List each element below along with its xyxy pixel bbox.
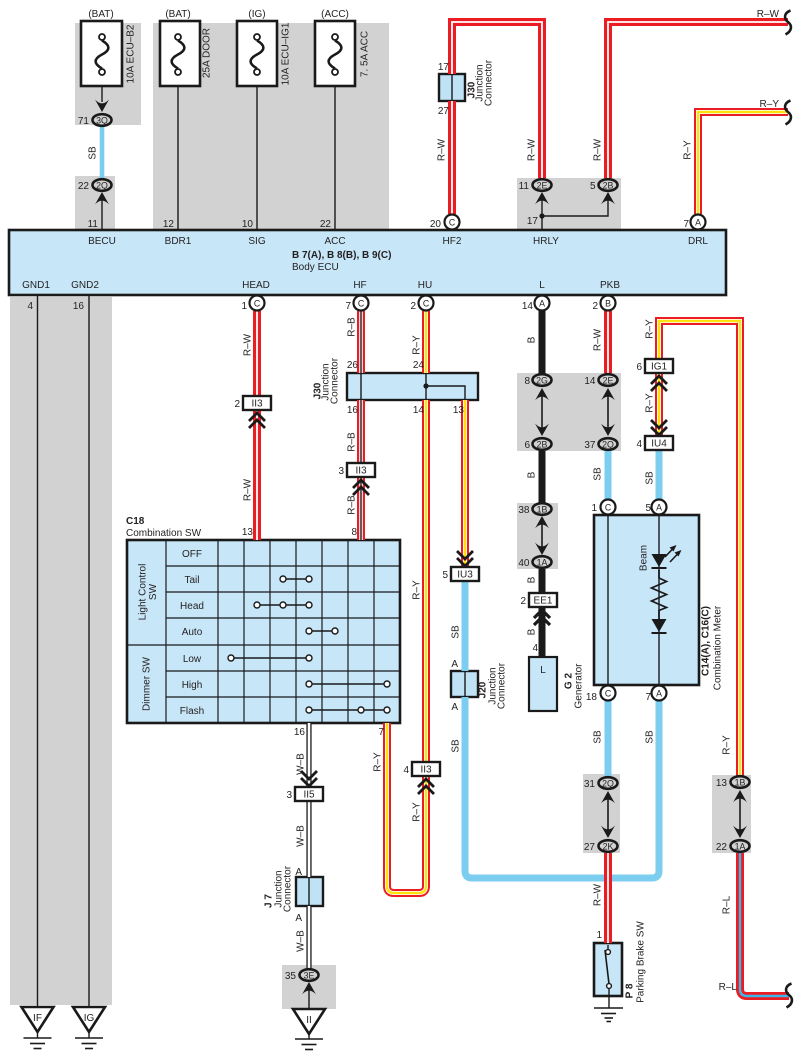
wire R-Y HU through J30 pin24/14 to II3 pin4 and U-turn to SW pin 7 (387, 311, 426, 893)
svg-text:R–B: R–B (347, 432, 358, 452)
svg-text:17: 17 (438, 62, 450, 73)
svg-text:C: C (605, 503, 612, 513)
svg-text:6: 6 (524, 440, 530, 451)
svg-text:Tail: Tail (184, 575, 199, 586)
solid arrow into 2Q (95, 192, 109, 205)
wire R-Y J30 pin13 to IU3 (461, 400, 469, 567)
svg-text:BECU: BECU (88, 236, 116, 247)
svg-text:B: B (527, 576, 538, 583)
svg-text:R–W: R–W (593, 883, 604, 906)
svg-text:R–B: R–B (347, 495, 358, 515)
connector box II5 pin3 (295, 787, 323, 801)
svg-text:10A ECU–B2: 10A ECU–B2 (126, 24, 137, 83)
pin circle C HEAD (250, 296, 265, 311)
svg-text:1B: 1B (735, 778, 746, 788)
svg-text:HF: HF (353, 280, 366, 291)
switch contacts Flash row (306, 707, 390, 713)
svg-text:7. 5A ACC: 7. 5A ACC (360, 31, 371, 77)
thin wire fuse1 to arrow 3Q (101, 76, 103, 102)
gray background strip GND1/GND2 (10, 297, 112, 1005)
thin wire through J30 middle pin24-14 with branch to pin13 (426, 374, 465, 399)
svg-text:SB: SB (593, 467, 604, 481)
ground symbol IG (75, 1032, 103, 1049)
svg-text:A: A (451, 702, 458, 713)
svg-text:Beam: Beam (639, 545, 650, 571)
svg-text:R–Y: R–Y (683, 140, 694, 160)
svg-text:B 7(A), B 8(B), B 9(C): B 7(A), B 8(B), B 9(C) (292, 250, 391, 261)
svg-text:7: 7 (378, 727, 384, 738)
pin circle B PKB (601, 296, 616, 311)
meter labels (639, 545, 724, 690)
svg-text:Connector: Connector (330, 357, 341, 404)
double arrow between 2G and 2B (535, 388, 549, 436)
fuse 10A ECU-B2 (81, 21, 122, 86)
oval connector 27 2K (599, 840, 618, 852)
junction connector J30 middle box (347, 373, 478, 400)
wire B 2B to 1B (539, 451, 546, 503)
svg-text:(IG): (IG) (248, 9, 265, 20)
junction connector J7 box (296, 877, 323, 906)
svg-text:R–B: R–B (347, 317, 358, 337)
Generator G2 box (529, 657, 557, 711)
wire R-W 2K to parking brake SW pin 1 (604, 853, 612, 943)
svg-text:IG1: IG1 (651, 362, 668, 373)
wire B EE1 to generator pin 4 (539, 607, 546, 657)
svg-text:12: 12 (163, 219, 175, 230)
svg-text:R–W: R–W (527, 138, 538, 161)
svg-text:W–B: W–B (296, 825, 307, 847)
svg-text:27: 27 (438, 106, 450, 117)
svg-text:2K: 2K (603, 842, 614, 852)
wire R-Y IG1 chain horizontal and down to 1B (659, 321, 740, 776)
svg-text:1A: 1A (735, 842, 746, 852)
svg-text:R–W: R–W (243, 333, 254, 356)
wire break curl R-W top right (785, 11, 791, 35)
svg-text:II3: II3 (251, 399, 263, 410)
svg-text:L: L (539, 280, 545, 291)
svg-text:16: 16 (73, 301, 85, 312)
chevron into II3 pin4 (418, 779, 434, 794)
oval connector 5 2B (599, 179, 618, 191)
svg-text:6: 6 (636, 362, 642, 373)
wire labels HEAD/HF/HU chains (243, 317, 423, 822)
svg-text:R–W: R–W (757, 9, 780, 20)
svg-text:SB: SB (88, 146, 99, 160)
svg-text:C: C (449, 218, 456, 228)
connector box II3 pin3 (347, 463, 375, 477)
LED 2 (diode) in meter (652, 619, 667, 633)
chevron into II5 (301, 771, 317, 786)
svg-text:7: 7 (345, 301, 351, 312)
wire R-Y IG1 to IU4 (655, 373, 663, 436)
oval connector 22 2Q (93, 179, 112, 191)
C18 combination SW labels (126, 516, 204, 717)
svg-text:8: 8 (351, 527, 357, 538)
svg-text:R–W: R–W (593, 138, 604, 161)
switch contacts High row (306, 681, 390, 687)
pin circle C HF (354, 296, 369, 311)
oval connector 37 2Q lower (599, 438, 618, 450)
svg-text:14: 14 (413, 405, 425, 416)
oval connector 71 3Q (93, 114, 112, 126)
svg-text:Generator: Generator (574, 663, 585, 709)
svg-text:(BAT): (BAT) (88, 9, 113, 20)
solid arrow into 2E (535, 192, 549, 205)
chevron into II3 pin3 (353, 480, 369, 495)
ground below parking brake SW (594, 996, 623, 1022)
svg-text:4: 4 (403, 765, 409, 776)
pin circle C meter 1 (601, 500, 616, 515)
oval connector 14 2E lower (599, 374, 618, 386)
svg-text:Head: Head (180, 601, 204, 612)
generator labels (540, 663, 584, 709)
wire R-W 2B to right edge (608, 22, 788, 178)
svg-text:W–B: W–B (296, 930, 307, 952)
svg-text:5: 5 (442, 570, 448, 581)
J30 middle labels (313, 357, 341, 404)
oval connector 8 2G (533, 374, 552, 386)
svg-text:R–W: R–W (593, 328, 604, 351)
svg-text:HU: HU (418, 280, 432, 291)
oval connector 31 2Q lower2 (599, 777, 618, 789)
gray background patch 2G/2B/2E/2Q (517, 373, 621, 451)
svg-text:5: 5 (590, 181, 596, 192)
svg-text:R–W: R–W (437, 138, 448, 161)
thin wire through J30 middle pin26-16 (360, 374, 362, 399)
svg-text:37: 37 (584, 440, 596, 451)
svg-text:R–Y: R–Y (412, 802, 423, 822)
svg-text:1: 1 (591, 503, 597, 514)
LED Beam indicator (652, 545, 682, 568)
svg-text:2Q: 2Q (602, 779, 614, 789)
gray background patch 3E ground (282, 965, 336, 1009)
svg-text:2: 2 (234, 399, 240, 410)
gray background patch 1B/1A (517, 503, 558, 569)
svg-text:3E: 3E (304, 971, 315, 981)
svg-text:GND2: GND2 (71, 280, 99, 291)
junction dot node HRLY (539, 213, 544, 218)
svg-text:IG: IG (84, 1013, 95, 1024)
svg-text:SB: SB (645, 730, 656, 744)
solid arrow into 2B (601, 192, 615, 205)
pin circle A DRL (691, 215, 706, 230)
svg-text:Combination SW: Combination SW (126, 528, 202, 539)
wire R-W HF2 to J30 top (452, 22, 542, 214)
svg-text:R–Y: R–Y (645, 319, 656, 339)
svg-text:C: C (605, 689, 612, 699)
svg-text:2: 2 (410, 301, 416, 312)
svg-text:7: 7 (683, 219, 689, 230)
double arrow between 2E and 2Q (601, 388, 615, 436)
thin wire 3E arrow to triangle II (308, 988, 310, 1009)
svg-text:8: 8 (524, 376, 530, 387)
ground symbol II (295, 1034, 323, 1050)
junction connector J30 top box (439, 74, 465, 101)
svg-text:Combination Meter: Combination Meter (713, 605, 724, 690)
svg-text:71: 71 (78, 116, 90, 127)
svg-text:Connector: Connector (283, 865, 294, 912)
gray background strip fuse ECU-B2 (75, 23, 141, 125)
thin wire through J20 (464, 672, 466, 696)
svg-text:Low: Low (183, 654, 202, 665)
ground triangle IG (73, 1007, 105, 1032)
thin wire through J30 top (451, 75, 453, 100)
letters in oval connectors (96, 116, 745, 981)
svg-text:22: 22 (78, 181, 90, 192)
double arrow between 2Q and 2K (601, 791, 615, 838)
solid arrow into 3Q (95, 100, 109, 113)
svg-text:1: 1 (596, 930, 602, 941)
wire B L-pin to 2G (539, 311, 546, 374)
connector box II3 pin2 (243, 396, 271, 410)
svg-text:C: C (254, 299, 261, 309)
gray background block fuses DOOR/IG/ACC (153, 23, 389, 230)
wire SB 2Q37 to meter pin 1 (605, 451, 612, 500)
svg-text:B: B (527, 336, 538, 343)
svg-text:A: A (451, 659, 458, 670)
svg-text:DRL: DRL (688, 236, 708, 247)
svg-text:R–L: R–L (722, 895, 733, 914)
svg-text:IF: IF (33, 1013, 42, 1024)
svg-text:2: 2 (592, 301, 598, 312)
svg-text:IU3: IU3 (457, 570, 473, 581)
fuse 10A ECU-IG1 (237, 21, 277, 86)
svg-text:Auto: Auto (182, 627, 203, 638)
wire R-B HF to combination SW pin 8 (357, 311, 365, 540)
svg-text:1B: 1B (537, 505, 548, 515)
W-B chain labels (295, 753, 306, 952)
svg-text:1A: 1A (537, 558, 548, 568)
svg-text:EE1: EE1 (534, 596, 553, 607)
svg-text:Connector: Connector (497, 662, 508, 709)
svg-text:PKB: PKB (600, 280, 620, 291)
connector box IU3 pin5 (451, 567, 479, 581)
Body ECU box B7(A) B8(B) B9(C) (9, 230, 726, 295)
svg-text:Parking Brake SW: Parking Brake SW (636, 921, 647, 1003)
oval connector 35 3E (300, 969, 319, 981)
gray background patch 2Q/2K lower (583, 774, 620, 853)
svg-text:SB: SB (451, 625, 462, 639)
svg-text:16: 16 (294, 727, 306, 738)
svg-text:Light Control: Light Control (138, 564, 149, 621)
svg-text:7: 7 (645, 692, 651, 703)
thin wire fuse ECU-IG1 to SIG pin 10 (256, 73, 258, 230)
J7 labels (264, 865, 294, 912)
svg-text:R–Y: R–Y (722, 735, 733, 755)
svg-text:2Q: 2Q (96, 181, 108, 191)
pin circle A L (535, 296, 550, 311)
svg-text:14: 14 (584, 376, 596, 387)
svg-text:C18: C18 (126, 516, 145, 527)
B chain labels (527, 336, 538, 635)
svg-text:HF2: HF2 (443, 236, 462, 247)
svg-text:(BAT): (BAT) (165, 9, 190, 20)
parking brake switch internal (605, 945, 611, 996)
pin circle C HF2 (445, 215, 460, 230)
svg-text:25A DOOR: 25A DOOR (202, 28, 213, 78)
connector box EE1 pin2 (529, 593, 557, 607)
svg-text:II: II (306, 1015, 312, 1026)
svg-text:2Q: 2Q (602, 440, 614, 450)
svg-text:35: 35 (285, 971, 297, 982)
gray background patch 1B/1A right (712, 775, 751, 853)
svg-text:R–W: R–W (243, 478, 254, 501)
connector box IU4 pin4 (645, 436, 673, 450)
svg-text:14: 14 (522, 301, 534, 312)
svg-text:40: 40 (518, 558, 530, 569)
svg-text:BDR1: BDR1 (165, 236, 192, 247)
pin circle C HU (419, 296, 434, 311)
wire R-L 1A to right edge (740, 853, 789, 996)
junction dot node J30 pin24 (423, 383, 428, 388)
svg-text:Body ECU: Body ECU (292, 262, 339, 273)
switch contacts Low row (228, 655, 312, 661)
wire break curl R-Y right (785, 101, 791, 125)
oval connector 6 2B lower (533, 438, 552, 450)
svg-text:II5: II5 (303, 790, 315, 801)
thin wire through J7 (308, 878, 310, 905)
svg-text:IU4: IU4 (651, 439, 667, 450)
thin wire 2Q to BECU pin 11 (101, 199, 103, 230)
svg-text:3Q: 3Q (96, 116, 108, 126)
connector box IG1 pin6 (645, 359, 673, 373)
svg-text:Dimmer SW: Dimmer SW (142, 657, 153, 711)
svg-text:17: 17 (527, 216, 539, 227)
chevron into IG1 (651, 376, 667, 391)
switch contacts Auto row (306, 628, 338, 634)
svg-text:1: 1 (241, 301, 247, 312)
wire B 1A to EE1 (539, 569, 546, 593)
gray background patch 2Q connector (75, 176, 115, 229)
svg-text:SB: SB (645, 471, 656, 485)
ground symbol IF (24, 1032, 52, 1049)
svg-text:High: High (182, 680, 203, 691)
svg-text:SB: SB (451, 739, 462, 753)
svg-text:A: A (695, 218, 701, 228)
oval connector 13 1B right (731, 776, 750, 788)
ground triangle II (293, 1009, 325, 1034)
wire SB IU4 to meter pin 5 (656, 450, 663, 500)
oval connector 38 1B (533, 503, 552, 515)
svg-text:R–Y: R–Y (645, 393, 656, 413)
svg-text:2G: 2G (536, 376, 548, 386)
P8 labels (625, 921, 647, 1003)
svg-text:A: A (656, 689, 662, 699)
fuse 25A DOOR (160, 21, 200, 86)
switch contacts Head row (254, 602, 312, 608)
svg-text:38: 38 (518, 505, 530, 516)
svg-text:11: 11 (88, 219, 99, 230)
oval connector 11 2E (533, 179, 552, 191)
svg-text:ACC: ACC (324, 236, 345, 247)
thin wire GND2 (88, 295, 90, 1007)
svg-text:2: 2 (520, 596, 526, 607)
wire SB J20 U-path to meter pin 7 (465, 697, 659, 878)
resistor in meter (652, 570, 667, 619)
wire SB 3Q to 2Q (100, 127, 105, 178)
svg-text:C: C (358, 299, 365, 309)
wire R-W PKB to 2E (604, 311, 612, 373)
letters in pin circles (254, 218, 701, 699)
svg-text:P 8: P 8 (625, 983, 636, 998)
svg-text:26: 26 (347, 360, 359, 371)
svg-text:2E: 2E (603, 376, 614, 386)
chevron into EE1 (534, 610, 550, 625)
junction connector J20 box (451, 671, 478, 697)
thin wire fuse ACC to ACC pin 22 (334, 73, 336, 230)
chevron into II3 pin2 (249, 413, 265, 428)
svg-text:22: 22 (320, 219, 332, 230)
svg-text:B: B (527, 471, 538, 478)
thin wire fuse DOOR to BDR1 pin 12 (177, 73, 179, 230)
wire W-B combination SW pin16 to II5 to J7 to 3E (306, 723, 311, 968)
svg-text:2E: 2E (537, 181, 548, 191)
svg-text:SIG: SIG (248, 236, 265, 247)
TEXT LABELS (88, 9, 370, 85)
svg-text:W–B: W–B (296, 753, 307, 775)
ground triangle IF (22, 1007, 54, 1032)
switch contacts Tail row (280, 576, 312, 582)
meter internal wire pin5 to pin7 (658, 516, 660, 684)
Body ECU labels (22, 236, 708, 291)
wire R-W HEAD to combination SW pin 13 (253, 311, 261, 540)
svg-text:HRLY: HRLY (533, 236, 559, 247)
svg-text:II3: II3 (355, 466, 367, 477)
svg-text:20: 20 (430, 219, 442, 230)
svg-text:18: 18 (586, 692, 598, 703)
fuse 7.5A ACC (315, 21, 355, 86)
svg-text:HEAD: HEAD (242, 280, 270, 291)
svg-text:B: B (605, 299, 611, 309)
svg-text:R–Y: R–Y (412, 580, 423, 600)
chevron into IU3 (457, 551, 473, 566)
svg-text:A: A (295, 867, 302, 878)
pin circle C meter 18 (601, 686, 616, 701)
svg-text:SW: SW (148, 583, 159, 600)
pin circle A meter 5 (652, 500, 667, 515)
svg-text:22: 22 (716, 842, 728, 853)
svg-text:31: 31 (584, 779, 596, 790)
svg-text:13: 13 (716, 778, 728, 789)
svg-text:2B: 2B (537, 440, 548, 450)
double arrow between 1B and 1A (535, 516, 549, 555)
svg-text:27: 27 (584, 842, 596, 853)
svg-text:3: 3 (338, 466, 344, 477)
svg-text:4: 4 (27, 301, 33, 312)
svg-text:R–Y: R–Y (760, 99, 780, 110)
svg-text:A: A (656, 503, 662, 513)
svg-text:R–L: R–L (719, 982, 738, 993)
svg-text:10: 10 (242, 219, 254, 230)
oval connector 22 1A right (731, 840, 750, 852)
wire R-Y DRL to right edge (698, 112, 788, 214)
solid arrow into 3E (302, 982, 316, 995)
svg-text:GND1: GND1 (22, 280, 50, 291)
svg-text:A: A (295, 913, 302, 924)
ground triangle labels (33, 1013, 312, 1026)
double arrow between 1B and 1A right (733, 790, 747, 838)
svg-text:II3: II3 (420, 765, 432, 776)
svg-text:13: 13 (242, 527, 254, 538)
Combination Meter C14(A) C16(C) box (594, 515, 699, 685)
svg-text:R–Y: R–Y (373, 752, 384, 772)
meter internal wire pin1 to pin18 (607, 516, 609, 684)
svg-text:24: 24 (413, 360, 425, 371)
wire SB meter pin 18 to 2Q31 (605, 701, 612, 777)
chevron into IU4 (651, 420, 667, 435)
Parking Brake SW P8 box (594, 943, 622, 996)
svg-text:(ACC): (ACC) (321, 9, 349, 20)
